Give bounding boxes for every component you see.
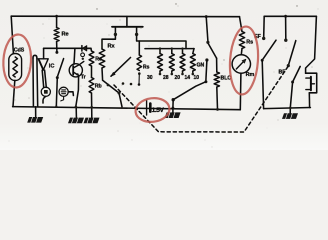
wire BLC feed	[216, 58, 218, 72]
node bus junction right	[284, 15, 287, 18]
svg-text:Rm: Rm	[246, 72, 255, 78]
switch S1 contact top	[206, 41, 209, 44]
svg-text:1.5V: 1.5V	[152, 107, 165, 114]
wire right bend to battery	[306, 16, 317, 73]
resistor Re2	[89, 51, 94, 66]
ground G5	[289, 108, 291, 114]
jack J2	[59, 87, 68, 96]
node bus junction Re	[55, 15, 58, 18]
annotation ellipse CdS red	[2, 34, 32, 88]
ground G1	[35, 107, 37, 117]
wiper arm selector	[173, 82, 206, 100]
svg-text:30: 30	[147, 75, 153, 81]
resistor Rs2	[138, 41, 140, 55]
wire top bus main	[11, 15, 239, 18]
resistor BLC	[214, 72, 219, 87]
wiper arrow Rx	[111, 58, 131, 77]
wire bus corner to Rs3	[240, 17, 243, 32]
wire Rs3 to meter	[240, 49, 243, 55]
speck marks	[96, 3, 297, 60]
svg-text:Rb: Rb	[95, 84, 102, 90]
diode D1	[81, 46, 83, 51]
potentiometer Rx	[99, 49, 105, 68]
wire rail y48	[44, 47, 91, 49]
switch S2 contact bottom	[56, 76, 59, 79]
meter M1	[232, 55, 250, 73]
svg-text:Rs: Rs	[246, 40, 253, 46]
node rail junctions	[55, 105, 57, 107]
svg-text:20: 20	[175, 75, 181, 81]
wire rail up to meter	[239, 73, 242, 109]
wire Re2 to Rb	[91, 66, 93, 78]
jack J1	[41, 87, 50, 96]
wire bus drop to Re	[56, 16, 58, 27]
capacitor bar T	[126, 17, 128, 27]
wire bottom rail right	[264, 108, 311, 109]
wire Rb to rail	[91, 93, 93, 107]
op-amp IC	[38, 59, 48, 70]
wire top bus right section	[264, 15, 316, 17]
linkage dashed mechanical	[114, 67, 288, 133]
wire Rx bottom network	[102, 68, 122, 107]
wire S2 to rail bottom	[56, 78, 57, 107]
node T base feed	[73, 48, 76, 64]
svg-text:GN: GN	[197, 63, 205, 69]
battery BT1 long plate	[146, 101, 148, 116]
resistor Re1	[54, 28, 59, 42]
svg-text:Rs: Rs	[143, 65, 150, 71]
wire drop BF	[285, 16, 287, 38]
switch S1 arm	[208, 44, 216, 59]
wire left contact to Rx	[102, 36, 115, 50]
wire right contact to bank rail	[137, 36, 186, 49]
svg-text:10: 10	[194, 75, 200, 81]
node bus junction S1	[205, 15, 208, 18]
svg-text:IC: IC	[49, 64, 55, 70]
wire bottom rail main	[13, 107, 241, 110]
annotation ellipse meter red	[228, 26, 260, 96]
wire rail stub to IC top	[43, 48, 45, 59]
battery BT2	[306, 73, 317, 93]
ground G3	[91, 108, 93, 118]
resistor bank R28	[171, 49, 173, 54]
wire bank rail	[145, 48, 194, 50]
resistor Rb	[89, 78, 94, 94]
wire diode corner to Re2	[90, 48, 93, 51]
switch S2 arm	[57, 59, 63, 77]
photoresistor CdS cell	[9, 54, 22, 81]
transistor Q1 Tr	[69, 64, 82, 77]
resistor Rs3	[239, 32, 244, 49]
svg-text:CdS: CdS	[14, 48, 25, 54]
resistor bank R20	[182, 49, 184, 54]
wire drop EF left	[263, 16, 266, 37]
svg-text:Tr: Tr	[81, 75, 86, 81]
svg-text:28: 28	[163, 75, 169, 81]
node small circle junction	[81, 53, 85, 57]
wire emitter to rail	[76, 75, 79, 106]
switch EF arm	[262, 40, 276, 60]
wire wiper pivot to rail	[172, 100, 174, 108]
wire CdS bottom to rail	[13, 81, 15, 107]
switch EF contact	[262, 37, 265, 40]
wire feedback loop pair	[33, 55, 37, 58]
wire IC output pair down	[42, 70, 44, 87]
svg-text:Re: Re	[62, 32, 69, 38]
switch C arm	[293, 66, 301, 82]
paper noise	[8, 5, 318, 147]
switch BF contact	[284, 39, 287, 42]
battery BT1 short plate	[149, 104, 152, 112]
switch S1 contact bottom	[205, 58, 208, 61]
resistor bank R14 GN	[193, 49, 194, 54]
wire S1 bottom to wiper contact	[206, 60, 207, 80]
svg-text:14: 14	[185, 75, 191, 81]
wire switch C to bottom rail	[290, 82, 292, 108]
ground G4	[172, 108, 174, 113]
wire left drop from bus to CdS	[11, 16, 13, 53]
wire bus to S1	[206, 17, 208, 41]
wire battery to bottom rail	[308, 93, 310, 108]
switch BF arm	[288, 41, 296, 66]
wire EF pivot to bottom rail	[262, 60, 263, 108]
ground G2	[75, 108, 77, 118]
wire BLC to rail	[216, 87, 219, 109]
wire Re to rail	[56, 42, 58, 49]
switch S2 contact top	[55, 51, 58, 54]
switch contact right	[136, 27, 138, 33]
switch contact left	[114, 27, 116, 33]
resistor bank R30	[159, 49, 161, 54]
node selector studs	[122, 82, 125, 85]
svg-text:Rx: Rx	[108, 44, 116, 50]
annotation ellipse battery red	[134, 96, 171, 124]
